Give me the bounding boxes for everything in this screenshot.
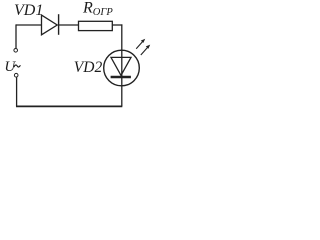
terminal upper (node) bbox=[14, 49, 18, 53]
terminal lower (node) bbox=[14, 73, 18, 77]
svg-text:VD2: VD2 bbox=[74, 59, 103, 76]
wire left upper vertical bbox=[15, 24, 17, 48]
resistor R_ogr bbox=[79, 21, 113, 30]
svg-text:VD1: VD1 bbox=[14, 2, 43, 19]
wire diode to resistor bbox=[59, 24, 79, 26]
diode VD1 bbox=[42, 14, 59, 35]
wire resistor to corner bbox=[112, 24, 122, 26]
light arrow 2 bbox=[141, 45, 150, 55]
wire left lower vertical bbox=[16, 77, 18, 106]
LED VD2 bbox=[104, 50, 140, 86]
light arrow 1 bbox=[136, 39, 145, 49]
wire top-left horizontal (source to diode) bbox=[16, 24, 42, 26]
wire bottom rail bbox=[16, 105, 122, 107]
wire right vertical (through LED) bbox=[121, 24, 123, 106]
